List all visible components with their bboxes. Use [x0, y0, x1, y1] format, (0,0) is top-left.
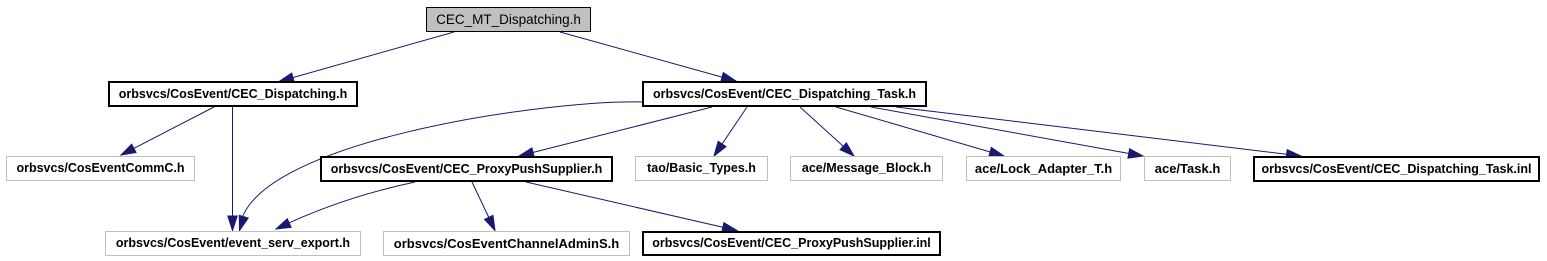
- node orbsvcs/CosEvent/CEC_Dispatching.h: [108, 81, 358, 107]
- edge CEC_MT_Dispatching.h -> CEC_Dispatching_Task.h: [560, 32, 736, 82]
- edge CEC_Dispatching.h -> event_serv_export.h: [228, 107, 237, 231]
- edge CEC_Dispatching_Task.h -> event_serv_export.h: [239, 102, 643, 231]
- edge CEC_ProxyPushSupplier.h -> event_serv_export.h: [276, 182, 415, 229]
- node orbsvcs/CosEvent/CEC_ProxyPushSupplier.inl: [642, 231, 941, 256]
- node ace/Task.h: [1144, 156, 1231, 181]
- edge CEC_Dispatching_Task.h -> CEC_Dispatching_Task.inl: [896, 107, 1301, 159]
- node orbsvcs/CosEvent/CEC_Dispatching_Task.inl: [1253, 156, 1540, 182]
- edge CEC_Dispatching.h -> CosEventCommC.h: [121, 107, 214, 155]
- edge CEC_Dispatching_Task.h -> Task.h: [871, 107, 1143, 158]
- node orbsvcs/CosEvent/CEC_ProxyPushSupplier.h: [320, 156, 613, 182]
- node orbsvcs/CosEvent/event_serv_export.h: [105, 231, 361, 256]
- edge CEC_Dispatching_Task.h -> Lock_Adapter_T.h: [836, 107, 1004, 157]
- edge CEC_MT_Dispatching.h -> CEC_Dispatching.h: [279, 32, 454, 82]
- node orbsvcs/CosEvent/CEC_Dispatching_Task.h: [642, 81, 927, 107]
- edge CEC_Dispatching_Task.h -> CEC_ProxyPushSupplier.h: [519, 107, 712, 157]
- node CEC_MT_Dispatching.h: [426, 7, 591, 32]
- edge CEC_ProxyPushSupplier.h -> CEC_ProxyPushSupplier.inl: [526, 182, 737, 232]
- edge CEC_Dispatching_Task.h -> Message_Block.h: [800, 107, 854, 156]
- edge CEC_ProxyPushSupplier.h -> CosEventChannelAdminS.h: [472, 182, 495, 231]
- node ace/Lock_Adapter_T.h: [966, 156, 1121, 181]
- edge CEC_Dispatching_Task.h -> Basic_Types.h: [714, 107, 747, 156]
- node orbsvcs/CosEventChannelAdminS.h: [383, 231, 630, 256]
- node ace/Message_Block.h: [790, 156, 943, 181]
- node orbsvcs/CosEventCommC.h: [6, 156, 195, 181]
- node tao/Basic_Types.h: [635, 156, 768, 181]
